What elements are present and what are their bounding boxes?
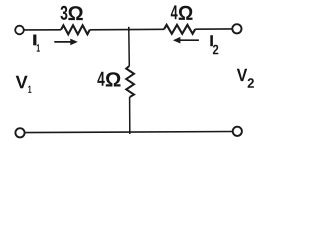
current label I1 [33, 35, 40, 52]
node junction (bottom middle) [129, 130, 131, 134]
node junction (top middle) [128, 27, 130, 31]
wire (bottom rail, bottom-left terminal to bottom-right terminal) [25, 132, 232, 133]
current arrow I2 (pointing left) [173, 37, 199, 44]
current arrow I1 (pointing right) [54, 39, 78, 46]
wire (resistor 4ohm right to top-right terminal) [195, 28, 232, 30]
wire (shunt resistor down to bottom rail) [129, 97, 131, 132]
value label 4ohm (top) [171, 5, 193, 20]
resistor 4ohm (series, right) [164, 25, 195, 34]
wire (top node down to shunt resistor) [128, 30, 131, 66]
voltage label V2 [237, 69, 254, 88]
voltage label V1 [16, 76, 32, 93]
resistor 4ohm (shunt, middle vertical) [126, 66, 134, 97]
wire (resistor 3ohm to node junction) [90, 29, 129, 31]
terminal (bottom-left port) [15, 128, 24, 137]
value label 4ohm (shunt) [97, 72, 120, 87]
terminal (top-right port) [232, 24, 241, 33]
wire (top-left terminal to resistor 3ohm) [24, 29, 61, 31]
terminal (top-left port) [15, 26, 24, 35]
wire (node junction to resistor 4ohm right) [129, 28, 164, 30]
terminal (bottom-right port) [233, 127, 242, 136]
value label 3ohm [61, 6, 83, 20]
current label I2 [210, 35, 218, 54]
resistor 3ohm (series, left) [61, 25, 90, 34]
